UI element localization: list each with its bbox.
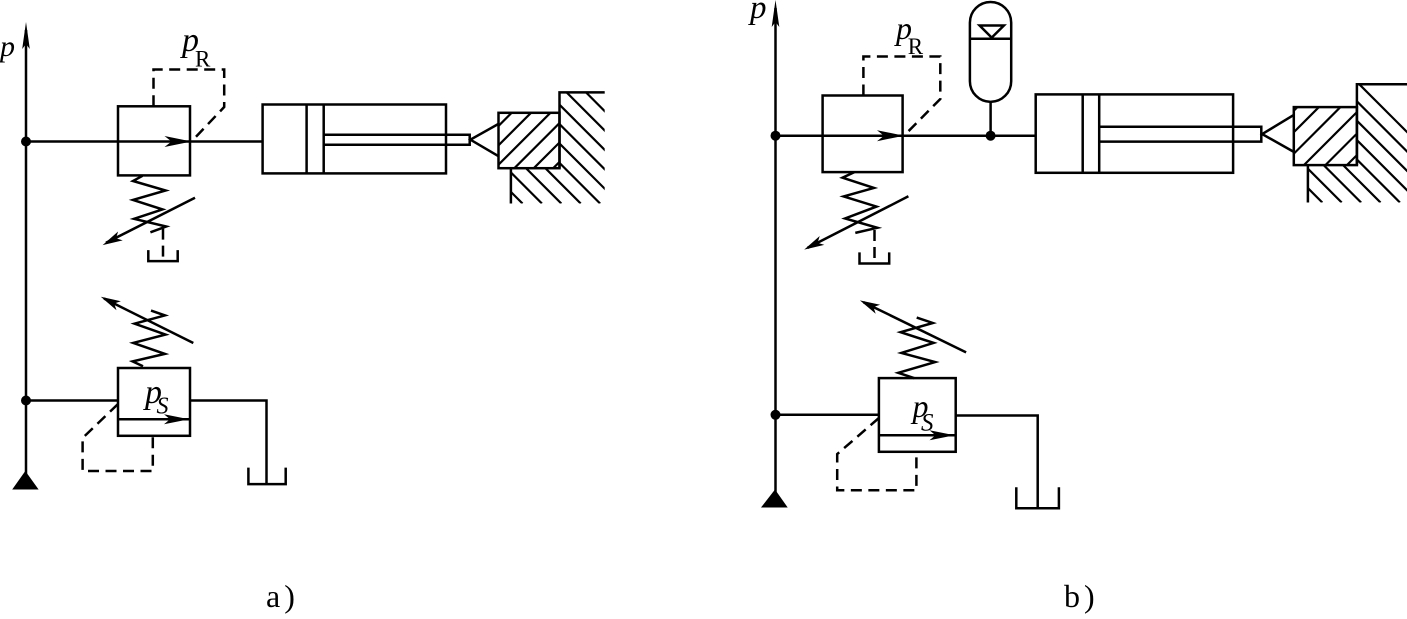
wire supply to relief valve (fig a) <box>26 399 118 402</box>
pilot line p_S dashed (fig b) <box>837 418 916 490</box>
workpiece block (fig a) <box>499 113 560 168</box>
fixture wall outline (fig b) <box>1308 84 1407 202</box>
flow arrow in reducing valve (fig b) <box>877 130 904 141</box>
cylinder piston (fig a) <box>307 105 324 174</box>
cylinder piston (fig b) <box>1083 94 1100 172</box>
adjustment arrow on reducing valve spring (fig a) <box>106 198 195 243</box>
adjustment arrow on relief valve spring (fig a) <box>104 299 193 344</box>
supply source triangle (fig b) <box>761 490 788 508</box>
wire supply to relief valve (fig b) <box>776 414 879 417</box>
pressure reducing valve box (fig a) <box>118 106 190 175</box>
adjustment arrow on relief valve spring (fig b) <box>864 302 967 352</box>
supply source triangle (fig a) <box>12 471 38 490</box>
svg-text:S: S <box>921 410 934 437</box>
cylinder barrel (fig b) <box>1036 94 1233 172</box>
supply line arrowhead (fig b) <box>772 0 780 27</box>
flow path and arrow in relief valve (fig b) <box>879 434 956 437</box>
pressure relief valve box (fig a) <box>118 368 190 436</box>
svg-text:R: R <box>908 34 924 59</box>
pressure relief valve box (fig b) <box>879 378 956 452</box>
tank symbol (fig a) <box>248 468 285 485</box>
spring of reducing valve (fig b) <box>843 172 878 233</box>
wire relief valve outlet to tank (fig a) <box>190 401 267 485</box>
piston rod (fig a) <box>324 135 470 145</box>
cylinder barrel (fig a) <box>263 105 446 174</box>
flow arrow in reducing valve (fig a) <box>165 136 192 147</box>
spring of relief valve (fig b) <box>898 318 935 379</box>
spring of reducing valve (fig a) <box>133 176 166 233</box>
supply pressure line p (fig a) <box>25 30 28 474</box>
supply line arrowhead (fig a) <box>22 22 30 49</box>
wire supply to cylinder through reducing valve (fig a) <box>26 140 263 143</box>
pilot line p_R dashed (fig a) <box>154 70 225 142</box>
node junction to relief valve (fig b) <box>771 410 781 420</box>
svg-text:p: p <box>748 0 767 26</box>
adjustment arrow on reducing valve spring (fig b) <box>808 196 909 248</box>
accumulator gas triangle (fig b) <box>980 26 1004 38</box>
rod cone tip (fig b) <box>1262 115 1294 152</box>
node junction to reducing valve (fig b) <box>771 131 781 141</box>
svg-text:R: R <box>195 47 211 72</box>
node junction to reducing valve (fig a) <box>21 137 31 147</box>
node accumulator junction (fig b) <box>986 131 996 141</box>
accumulator (fig b) <box>970 2 1011 102</box>
drain pilot dashed stub (fig a) <box>162 229 165 261</box>
rod cone tip (fig a) <box>470 124 498 156</box>
tank symbol (fig b) <box>1016 487 1059 508</box>
node junction to relief valve (fig a) <box>21 396 31 406</box>
spring of relief valve (fig a) <box>133 311 166 367</box>
flow path and arrow in relief valve (fig a) <box>118 418 190 421</box>
accumulator gas line (fig b) <box>970 38 1011 41</box>
drain pilot dashed stub (fig b) <box>873 230 876 264</box>
drain vent symbol (fig b) <box>860 252 890 263</box>
pilot line p_S dashed (fig a) <box>83 404 153 471</box>
workpiece block (fig b) <box>1294 107 1357 165</box>
pressure reducing valve box (fig b) <box>823 96 903 173</box>
svg-text:a): a) <box>266 578 299 614</box>
wire supply to cylinder through reducing valve (fig b) <box>776 134 1036 137</box>
pilot line p_R dashed (fig b) <box>863 57 940 136</box>
drain vent symbol (fig a) <box>148 250 177 261</box>
accumulator stem wire (fig b) <box>989 102 992 136</box>
svg-text:p: p <box>0 30 15 63</box>
wire relief valve outlet to tank (fig b) <box>956 416 1038 509</box>
piston rod (fig b) <box>1099 127 1261 142</box>
svg-text:b): b) <box>1064 578 1099 614</box>
supply pressure line p (fig b) <box>774 8 777 493</box>
fixture wall outline (fig a) <box>511 92 605 203</box>
